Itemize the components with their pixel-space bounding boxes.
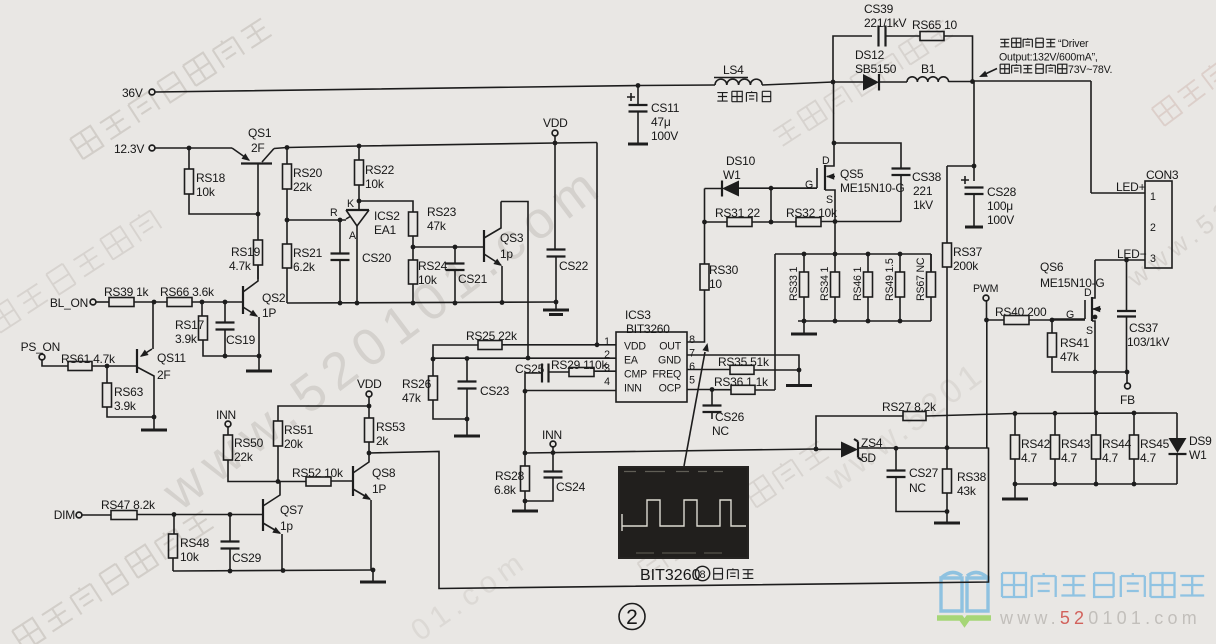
wire CS38 top [834, 143, 901, 168]
svg-text:QS6: QS6 [1040, 260, 1064, 274]
svg-text:RS26: RS26 [402, 377, 432, 391]
svg-text:A: A [349, 230, 357, 242]
MOSFET QS5 ME15N10-G [824, 165, 826, 190]
resistor RS37 [943, 243, 952, 267]
svg-text:RS67 NC: RS67 NC [915, 257, 927, 301]
svg-text:Output:132V/600mA”,: Output:132V/600mA”, [999, 52, 1098, 64]
wire RS41 bottom [1052, 357, 1095, 372]
svg-text:73V~78V.: 73V~78V. [1068, 64, 1112, 76]
svg-text:103/1kV: 103/1kV [1127, 335, 1170, 349]
junction R node divider [285, 218, 290, 223]
svg-text:INN: INN [624, 383, 642, 395]
wire VDD rail from QS1 [274, 143, 597, 149]
wire RS21 bottom [286, 268, 288, 303]
wire RS41 top [1051, 320, 1053, 333]
svg-text:QS11: QS11 [157, 351, 186, 365]
svg-text:RS23: RS23 [427, 205, 457, 219]
ground bank [803, 321, 805, 334]
svg-text:NC: NC [712, 424, 729, 438]
wire bank rail to RS36 [774, 254, 776, 390]
resistor RS35 [730, 365, 754, 374]
svg-text:CS38: CS38 [912, 170, 942, 184]
svg-text:LED+: LED+ [1116, 180, 1146, 194]
svg-text:INN: INN [542, 428, 562, 442]
wire pin7 GND [687, 355, 799, 370]
junction QS6 source/FB line [1093, 370, 1098, 375]
junction boost node [831, 80, 836, 85]
svg-text:DS9: DS9 [1189, 434, 1212, 448]
svg-text:CS21: CS21 [458, 272, 488, 286]
junction PWM/RS40 [984, 318, 989, 323]
LS4 underline [714, 77, 748, 79]
junction GND/RS35 [797, 368, 802, 373]
junction QS3 loop/EA [526, 356, 531, 361]
wire snubber right [944, 36, 973, 82]
resistor RS45 4.7 [1130, 435, 1139, 459]
junction INN terminal [551, 450, 556, 455]
svg-text:1: 1 [604, 336, 610, 348]
svg-text:200k: 200k [953, 259, 979, 273]
junction K node [357, 199, 362, 204]
junction RS34 top [833, 252, 838, 257]
wire FB bottom rail [1015, 483, 1177, 485]
wire RS22 to K [358, 185, 360, 210]
resistor RS17 [199, 316, 208, 340]
junction RS27 tap [814, 447, 819, 452]
resistor RS34 [831, 272, 840, 297]
svg-text:RS33 1: RS33 1 [788, 267, 800, 301]
svg-text:VDD: VDD [543, 116, 568, 130]
junction output node [970, 79, 975, 84]
svg-text:QS2: QS2 [262, 291, 286, 305]
junction QS6 source [1093, 315, 1098, 320]
junction CS23/RS26 [465, 417, 470, 422]
resistor RS26 [429, 376, 438, 400]
svg-text:3: 3 [604, 363, 610, 375]
svg-text:2: 2 [1150, 222, 1156, 234]
resistor RS66 [167, 298, 192, 307]
svg-text:10k: 10k [180, 550, 200, 564]
resistor RS49 [896, 272, 905, 297]
resistor RS46 [864, 272, 873, 297]
wire QS5 drain [833, 82, 835, 143]
svg-text:QS5: QS5 [840, 167, 864, 181]
svg-text:1p: 1p [280, 519, 293, 533]
junction CS29 bottom [228, 569, 233, 574]
svg-text:RS21: RS21 [293, 246, 323, 260]
junction RS17 top [200, 300, 205, 305]
junction CS22/ground rail [554, 300, 559, 305]
resistor RS39 [109, 298, 134, 307]
zener ZS4 5D [816, 448, 841, 450]
resistor RS51 [274, 421, 283, 446]
wire RS22 top [358, 146, 360, 160]
svg-text:RS22: RS22 [365, 163, 395, 177]
svg-text:43k: 43k [957, 484, 977, 498]
wire RS24 top [412, 247, 414, 260]
capacitor CS23 [458, 382, 477, 389]
wire INN down [524, 391, 526, 453]
junction RS20 top [285, 145, 290, 150]
capacitor CS28 [965, 188, 984, 195]
wire CS29 top [229, 515, 231, 542]
resistor RS24 [409, 260, 418, 284]
svg-text:RS45: RS45 [1140, 437, 1170, 451]
resistor RS48 [169, 534, 178, 558]
svg-text:BIT3260: BIT3260 [626, 322, 670, 336]
junction QS5 source node [833, 219, 838, 224]
transistor QS11 (PNP 2F) [136, 349, 138, 373]
wire analog ground rail [287, 302, 556, 303]
junction drain/CS38 [832, 141, 837, 146]
junction FB [1125, 370, 1130, 375]
capacitor CS38 [892, 169, 911, 176]
terminal VDD2 [366, 391, 372, 397]
wire RS25 to ICS3 pin1 [502, 344, 616, 346]
520101 logo book icon [941, 572, 988, 611]
resistor RS36 [731, 385, 755, 394]
ground QS7/QS8 rail [372, 570, 374, 582]
svg-text:RS19: RS19 [231, 245, 261, 259]
resistor RS18 [185, 169, 194, 194]
svg-text:G: G [1066, 309, 1074, 321]
svg-text:CS39: CS39 [864, 2, 894, 16]
resistor RS52 [306, 477, 331, 486]
junction RS48 top [172, 512, 177, 517]
svg-text:CS28: CS28 [987, 185, 1017, 199]
inductor B1 [907, 77, 949, 82]
svg-text:CS11: CS11 [651, 101, 680, 115]
svg-text:ME15N10-G: ME15N10-G [840, 181, 904, 195]
svg-text:4.7: 4.7 [1140, 451, 1157, 465]
terminal 12.3V [149, 145, 155, 151]
pointer line to pin 8 [684, 352, 705, 466]
wire RS51 bottom [277, 446, 279, 482]
wire QS3 collector loop to EA [501, 202, 528, 359]
svg-text:RS35 51k: RS35 51k [718, 355, 770, 369]
svg-text:QS7: QS7 [280, 503, 304, 517]
junction 36V/CS11 [636, 83, 641, 88]
wire RS31 right [770, 188, 772, 222]
svg-text:RS63: RS63 [114, 385, 144, 399]
svg-text:G: G [805, 179, 813, 191]
svg-text:4: 4 [604, 376, 610, 388]
svg-text:2k: 2k [376, 434, 389, 448]
svg-text:OCP: OCP [659, 383, 681, 395]
svg-text:7: 7 [689, 348, 695, 360]
junction CS37 top [1124, 258, 1129, 263]
svg-text:D: D [822, 155, 830, 167]
wire QS11 collector [137, 367, 154, 417]
resistor RS44 4.7 [1092, 435, 1101, 459]
svg-text:CMP: CMP [624, 369, 647, 381]
svg-text:CS37: CS37 [1129, 321, 1159, 335]
wire RS50 bottom [228, 460, 278, 482]
svg-text:RS41: RS41 [1060, 336, 1090, 350]
svg-text:PS_ON: PS_ON [21, 340, 60, 354]
svg-text:QS1: QS1 [248, 126, 272, 140]
wire DS10 to QS5 gate [739, 187, 817, 189]
svg-text:EA1: EA1 [374, 223, 397, 237]
diode DS9 W1 [1176, 413, 1178, 438]
wire CS28 branch [947, 165, 974, 167]
transistor QS3 (NPN 1p) [483, 230, 485, 262]
junction RS63 top [105, 364, 110, 369]
junction CS27 [894, 446, 899, 451]
junction CS20 top [338, 218, 343, 223]
resistor RS28 [521, 466, 530, 491]
wire QS1 base down [257, 164, 259, 214]
wire output down [973, 81, 975, 166]
svg-text:10k: 10k [418, 273, 438, 287]
wire CS25 left [525, 373, 542, 391]
wire CS25-RS29 [549, 371, 570, 373]
resistor RS67 [927, 272, 936, 297]
capacitor CS25 [542, 364, 549, 383]
wire RS38 top [946, 448, 948, 469]
wire ZS4 to PWM column [858, 447, 989, 449]
junction RS51/QS7 collector [276, 479, 281, 484]
waveform trace [622, 500, 746, 531]
svg-text:47k: 47k [402, 391, 422, 405]
wire QS11 emitter up [152, 302, 154, 349]
transistor QS2 (NPN 1P) [242, 286, 244, 314]
wire RS19 to QS2 [257, 265, 259, 279]
wire to LED+ [973, 80, 1092, 82]
transistor QS8 (NPN 1P) [352, 466, 354, 496]
wire RS25 left [433, 345, 478, 359]
resistor RS41 [1048, 333, 1057, 357]
wire RS48 top [173, 515, 175, 535]
capacitor CS19 [216, 323, 235, 330]
svg-text:4.7: 4.7 [1061, 451, 1078, 465]
svg-text:PWM: PWM [973, 283, 998, 295]
resistor RS40 [1004, 316, 1029, 325]
svg-text:RS43: RS43 [1061, 437, 1091, 451]
svg-text:6: 6 [689, 361, 695, 373]
wire 12.3V [155, 147, 232, 149]
wire source to rail [834, 222, 836, 255]
wire PWM loop [369, 448, 989, 589]
wire RS27 to FB rail [926, 413, 1177, 416]
svg-text:RS36 1.1k: RS36 1.1k [714, 375, 769, 389]
resistor RS53 [365, 418, 374, 442]
svg-text:CS29: CS29 [232, 551, 262, 565]
shunt reference ICS2 EA1 [346, 209, 369, 211]
wire DS10 corner [704, 189, 706, 223]
capacitor CS21 [446, 264, 465, 271]
svg-text:20k: 20k [284, 437, 304, 451]
svg-text:CS22: CS22 [559, 259, 589, 273]
svg-text:SB5150: SB5150 [855, 62, 897, 76]
svg-text:CS24: CS24 [556, 480, 586, 494]
svg-text:R: R [330, 207, 338, 219]
oscilloscope waveform image [618, 466, 749, 559]
resistor RS30 [700, 264, 709, 290]
svg-text:1p: 1p [500, 247, 513, 261]
svg-text:RS42: RS42 [1021, 437, 1051, 451]
svg-text:2F: 2F [251, 141, 265, 155]
svg-text:100V: 100V [987, 213, 1014, 227]
resistor RS31 [727, 218, 752, 227]
svg-text:47k: 47k [1060, 350, 1080, 364]
resistor RS65 [920, 32, 944, 41]
svg-text:NC: NC [909, 481, 926, 495]
svg-text:RS34 1: RS34 1 [819, 267, 831, 301]
wire RS26 bottom [433, 400, 467, 419]
junction RS23/RS24 [411, 245, 416, 250]
terminal PWM [983, 295, 989, 301]
svg-text:100V: 100V [651, 129, 678, 143]
wire CS21 top [454, 247, 456, 263]
terminal PS_ON [39, 354, 45, 360]
wire RS67 top [930, 254, 932, 272]
wire RS20-RS21 [286, 189, 288, 244]
svg-text:RS53: RS53 [376, 420, 406, 434]
page number (2) [619, 604, 645, 630]
svg-text:BL_ON: BL_ON [50, 296, 88, 310]
wire 36V rail [155, 85, 715, 92]
junction RS42 top [1013, 411, 1018, 416]
svg-text:ICS3: ICS3 [625, 308, 651, 322]
svg-text:LS4: LS4 [723, 63, 744, 77]
junction QS8 emitter [371, 568, 376, 573]
label 升压电感 [717, 91, 770, 101]
wire RS17 top [201, 302, 203, 316]
wire DIM section ground rail [173, 570, 373, 571]
svg-text:S: S [826, 194, 833, 206]
wire LED+ to CON3 [1091, 192, 1145, 194]
logo text 家电维修资料网 [1002, 573, 1204, 597]
wire RS32 to S node/CS38 [821, 221, 901, 223]
capacitor CS27 [887, 471, 906, 478]
junction RS28/CS24 bottom [523, 499, 528, 504]
junction RS38/CS27 [945, 509, 950, 514]
terminal FB [1125, 383, 1131, 389]
svg-text:CON3: CON3 [1146, 168, 1179, 182]
wire RS17/CS19 bottom [203, 340, 259, 356]
wire CS26 top [711, 390, 713, 406]
wire PWM column [986, 320, 988, 448]
svg-text:10k: 10k [196, 185, 216, 199]
wire to QS3 base [413, 246, 484, 248]
terminal BL_ON [90, 299, 96, 305]
resistor RS21 [283, 244, 292, 268]
junction RS30/RS31/DS10 [702, 220, 707, 225]
inductor LS4 [715, 79, 762, 85]
wire RS19 top [257, 214, 259, 240]
ground RS38 [946, 512, 948, 524]
svg-text:CS26: CS26 [715, 410, 745, 424]
svg-text:1kV: 1kV [913, 198, 933, 212]
junction RS33 top [802, 252, 807, 257]
terminal DIM [76, 512, 82, 518]
svg-text:2F: 2F [157, 368, 171, 382]
svg-text:CS23: CS23 [480, 384, 510, 398]
svg-text:8: 8 [689, 334, 695, 346]
svg-text:VDD: VDD [624, 341, 646, 353]
svg-text:RS24: RS24 [418, 259, 448, 273]
svg-text:W1: W1 [1189, 448, 1207, 462]
transistor QS1 (PNP 2F) [232, 148, 249, 160]
svg-text:RS44: RS44 [1102, 437, 1132, 451]
wire RS18 top [188, 148, 190, 169]
terminal 36V [149, 89, 155, 95]
junction RS31/RS32 [769, 220, 774, 225]
wire RS28 top [524, 453, 526, 466]
svg-text:RS46 1: RS46 1 [852, 267, 864, 301]
svg-text:10: 10 [709, 277, 722, 291]
junction gate drive [769, 186, 774, 191]
svg-text:RS40 200: RS40 200 [995, 305, 1047, 319]
terminal INN2 [550, 441, 556, 447]
svg-text:S: S [1086, 325, 1093, 337]
annotation arrow [981, 69, 997, 77]
resistor RS47 [111, 511, 137, 520]
svg-text:22k: 22k [293, 180, 313, 194]
wire RS18 bottom loop [189, 194, 258, 214]
ground CS11 [628, 143, 648, 146]
junction VDD/pin1 [595, 342, 600, 347]
resistor RS50 [224, 435, 233, 460]
svg-text:5D: 5D [861, 451, 876, 465]
wire ICS2 anode [356, 226, 358, 303]
resistor RS42 4.7 [1011, 435, 1020, 459]
junction CS19 top [223, 300, 228, 305]
svg-text:100μ: 100μ [987, 199, 1013, 213]
terminal VDD [552, 130, 558, 136]
watermark diagonal texts [70, 16, 272, 159]
wire K to RS23 [359, 201, 413, 212]
svg-text:www.520101.com: www.520101.com [999, 608, 1201, 628]
svg-text:LED−: LED− [1117, 247, 1147, 261]
ground CS23 [466, 419, 468, 436]
resistor RS43 4.7 [1051, 435, 1060, 459]
svg-text:D: D [1084, 287, 1092, 299]
wire bank top rail [775, 253, 931, 255]
wire DIM [82, 514, 111, 516]
svg-text:GND: GND [658, 355, 681, 367]
svg-text:2: 2 [604, 349, 610, 361]
svg-text:5: 5 [689, 375, 695, 387]
junction CS21 top [453, 245, 458, 250]
junction QS7 emitter [281, 568, 286, 573]
svg-text:3: 3 [1150, 253, 1156, 265]
capacitor CS29 [221, 542, 240, 549]
ground QS2 [258, 356, 260, 371]
resistor RS19 [254, 240, 263, 265]
svg-text:VDD: VDD [357, 377, 382, 391]
junction QS2 emitter [257, 354, 262, 359]
svg-text:RS37: RS37 [953, 245, 983, 259]
svg-text:4.7k: 4.7k [229, 259, 252, 273]
junction CS29 top [228, 512, 233, 517]
wire LED+ down [1090, 81, 1092, 193]
svg-text:RS52 10k: RS52 10k [292, 466, 344, 480]
wire CS11 top [637, 86, 639, 105]
svg-text:12.3V: 12.3V [114, 142, 144, 156]
svg-text:DS10: DS10 [726, 154, 756, 168]
junction BL_ON/QS11 [152, 300, 157, 305]
junction RS22 top [357, 144, 362, 149]
wire RS53 top [368, 406, 370, 418]
svg-text:QS8: QS8 [372, 466, 396, 480]
junction CS23 top [465, 356, 470, 361]
svg-text:FREQ: FREQ [652, 369, 681, 381]
wire source to FB node [1095, 371, 1127, 373]
junction QS11/RS63 [152, 415, 157, 420]
svg-text:RS17: RS17 [175, 318, 205, 332]
